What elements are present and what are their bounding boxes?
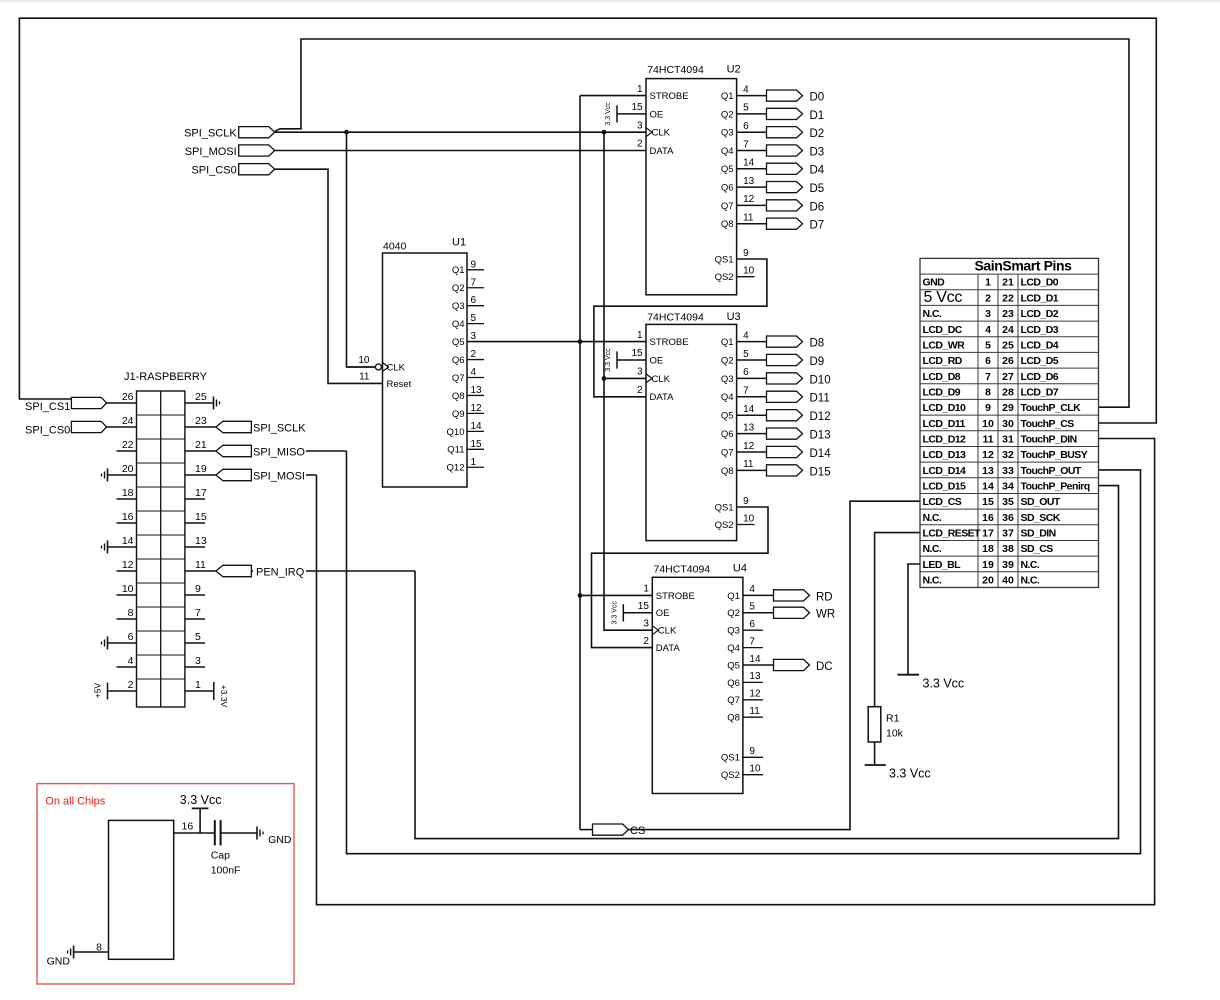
svg-text:14: 14 bbox=[471, 421, 483, 432]
svg-text:SPI_MOSI: SPI_MOSI bbox=[253, 471, 305, 483]
pin J1-3 stub bbox=[185, 666, 205, 668]
junction U3 CLK tap bbox=[602, 376, 607, 381]
pin U1 CLK bubble bbox=[375, 364, 381, 370]
svg-text:LCD_WR: LCD_WR bbox=[923, 339, 966, 351]
svg-text:Q4: Q4 bbox=[452, 319, 465, 330]
net flag D5 bbox=[767, 182, 803, 193]
svg-text:7: 7 bbox=[743, 139, 749, 150]
net flag SPI_SCLK (J1-23) bbox=[216, 421, 252, 432]
svg-text:74HCT4094: 74HCT4094 bbox=[647, 64, 704, 76]
annotation box On all Chips bbox=[37, 784, 294, 984]
pin U4 CLK wedge bbox=[652, 626, 658, 635]
svg-text:SPI_SCLK: SPI_SCLK bbox=[253, 423, 306, 435]
svg-text:Q3: Q3 bbox=[727, 626, 740, 637]
svg-text:22: 22 bbox=[122, 439, 134, 451]
svg-text:STROBE: STROBE bbox=[650, 91, 689, 102]
svg-text:2: 2 bbox=[471, 349, 477, 360]
wire U1 Q5 to U3 STROBE bbox=[467, 341, 646, 343]
connector J1 row divider 9 bbox=[137, 606, 185, 608]
svg-text:18: 18 bbox=[982, 543, 994, 555]
pin U1 Q4 stub bbox=[467, 323, 484, 325]
wire SCLK drop to U3/U4 CLK bbox=[604, 132, 652, 630]
net flag D0 bbox=[767, 90, 803, 101]
pin U1 Q10 stub bbox=[467, 430, 484, 432]
svg-text:7: 7 bbox=[195, 607, 201, 619]
svg-text:Q6: Q6 bbox=[452, 355, 465, 366]
svg-text:Q9: Q9 bbox=[452, 409, 465, 420]
svg-text:LCD_RESET: LCD_RESET bbox=[923, 527, 982, 539]
wire SPI_CS0 to U1 Reset bbox=[274, 169, 382, 383]
svg-text:QS2: QS2 bbox=[721, 770, 740, 781]
svg-text:TouchP_CLK: TouchP_CLK bbox=[1021, 402, 1082, 414]
net flag D8 bbox=[767, 336, 803, 347]
svg-text:QS1: QS1 bbox=[715, 502, 734, 513]
pin J1-9 stub bbox=[185, 594, 205, 596]
svg-text:11: 11 bbox=[359, 371, 370, 382]
svg-text:CLK: CLK bbox=[658, 626, 677, 637]
wire R1 to 3.3 Vcc bar bbox=[874, 742, 876, 765]
svg-text:2: 2 bbox=[985, 292, 991, 304]
svg-text:N.C.: N.C. bbox=[923, 543, 942, 555]
svg-text:9: 9 bbox=[743, 496, 749, 507]
junction SCLK/U1-CLK drop bbox=[344, 130, 349, 135]
connector J1 center line bbox=[160, 391, 162, 707]
wire SPI_SCLK/TouchP_CLK net outer loop bbox=[275, 39, 1129, 407]
svg-text:2: 2 bbox=[128, 679, 134, 691]
svg-text:5 Vcc: 5 Vcc bbox=[924, 289, 963, 306]
svg-text:26: 26 bbox=[1002, 355, 1014, 367]
ground at J1-25 bbox=[213, 397, 215, 410]
svg-text:27: 27 bbox=[1002, 371, 1014, 383]
connector J1 row divider 11 bbox=[137, 654, 185, 656]
svg-text:32: 32 bbox=[1002, 449, 1014, 461]
shift register U2 74HCT4094 body bbox=[646, 79, 737, 295]
pin U4 Q3 stub bbox=[743, 629, 763, 631]
svg-text:Q1: Q1 bbox=[721, 91, 734, 102]
svg-text:Q7: Q7 bbox=[727, 695, 740, 706]
power 3.3 Vcc bar at U4 OE bbox=[622, 604, 624, 621]
label SPI_MOSI (J1-19) bbox=[252, 469, 306, 481]
svg-text:12: 12 bbox=[471, 403, 483, 414]
wire STROBE to U4 bbox=[580, 594, 652, 596]
svg-text:7: 7 bbox=[985, 371, 991, 383]
svg-text:23: 23 bbox=[1002, 308, 1014, 320]
net flag SPI_MOSI (J1-19) bbox=[216, 469, 252, 480]
net flag SPI_CS0 (J1-24) bbox=[71, 421, 106, 432]
pin U1 Q8 stub bbox=[467, 394, 484, 396]
pin J1-7 stub bbox=[185, 618, 205, 620]
svg-text:26: 26 bbox=[122, 391, 134, 403]
svg-text:LCD_D6: LCD_D6 bbox=[1021, 371, 1059, 383]
svg-text:20: 20 bbox=[982, 574, 994, 586]
svg-text:D1: D1 bbox=[810, 110, 825, 122]
svg-text:D5: D5 bbox=[810, 183, 825, 195]
svg-text:21: 21 bbox=[195, 439, 207, 451]
svg-text:Q3: Q3 bbox=[452, 301, 465, 312]
wire U3 Q4 to flag bbox=[737, 396, 767, 398]
svg-text:GND: GND bbox=[47, 955, 71, 967]
svg-text:LCD_D3: LCD_D3 bbox=[1021, 324, 1059, 336]
svg-text:N.C.: N.C. bbox=[923, 574, 942, 586]
svg-text:13: 13 bbox=[743, 176, 755, 187]
svg-text:24: 24 bbox=[122, 415, 134, 427]
net flag D2 bbox=[767, 127, 803, 138]
svg-text:10: 10 bbox=[743, 513, 755, 524]
svg-text:7: 7 bbox=[743, 386, 749, 397]
svg-text:D14: D14 bbox=[810, 448, 832, 460]
pin J1-5 stub bbox=[185, 642, 205, 644]
svg-text:11: 11 bbox=[743, 459, 754, 470]
wire SPI_MISO net loop bbox=[347, 451, 1141, 854]
pin J1-13 stub bbox=[185, 546, 205, 548]
svg-text:4: 4 bbox=[128, 655, 134, 667]
wire J1-26 from flag bbox=[107, 402, 137, 404]
svg-text:9: 9 bbox=[195, 583, 201, 595]
net flag D15 bbox=[767, 465, 803, 476]
svg-text:6: 6 bbox=[471, 295, 477, 306]
svg-text:Q5: Q5 bbox=[452, 337, 465, 348]
svg-text:N.C.: N.C. bbox=[923, 308, 942, 320]
svg-text:GND: GND bbox=[268, 834, 292, 846]
svg-text:13: 13 bbox=[195, 535, 207, 547]
svg-text:D13: D13 bbox=[810, 430, 831, 442]
wire LCD_RESET to R1 bbox=[875, 533, 920, 707]
svg-text:14: 14 bbox=[749, 654, 761, 665]
wire pin 8 to GND bbox=[74, 951, 109, 953]
wire U3 Q7 to flag bbox=[737, 451, 767, 453]
svg-text:LCD_D7: LCD_D7 bbox=[1021, 386, 1059, 398]
svg-text:9: 9 bbox=[471, 259, 477, 270]
wire cap to GND bbox=[221, 832, 257, 834]
net flag D6 bbox=[767, 200, 803, 211]
svg-text:OE: OE bbox=[656, 608, 670, 619]
svg-text:6: 6 bbox=[128, 631, 134, 643]
svg-text:25: 25 bbox=[1002, 339, 1014, 351]
wire U4 Q5 to flag bbox=[743, 664, 774, 666]
svg-text:1: 1 bbox=[637, 84, 643, 95]
connector J1 row divider 12 bbox=[137, 678, 185, 680]
ground at J1-14 bbox=[107, 541, 109, 554]
junction STROBE/U4 bbox=[578, 593, 583, 598]
wire PEN_IRQ run bbox=[252, 570, 416, 572]
svg-text:6: 6 bbox=[743, 121, 749, 132]
wire U3 Q2 to flag bbox=[737, 359, 767, 361]
svg-text:100nF: 100nF bbox=[211, 865, 241, 877]
svg-text:1: 1 bbox=[471, 457, 477, 468]
svg-text:STROBE: STROBE bbox=[656, 591, 695, 602]
svg-text:9: 9 bbox=[749, 746, 755, 757]
wire STROBE to U2 bbox=[580, 95, 646, 97]
svg-text:D6: D6 bbox=[810, 201, 825, 213]
pin U1 Q12 stub bbox=[467, 466, 484, 468]
svg-text:6: 6 bbox=[985, 355, 991, 367]
svg-text:6: 6 bbox=[743, 367, 749, 378]
svg-text:SainSmart Pins: SainSmart Pins bbox=[974, 257, 1072, 273]
svg-text:QS1: QS1 bbox=[715, 254, 734, 265]
svg-text:12: 12 bbox=[749, 689, 761, 700]
svg-text:2: 2 bbox=[637, 385, 643, 396]
svg-text:R1: R1 bbox=[886, 713, 900, 725]
svg-text:D3: D3 bbox=[810, 146, 825, 158]
svg-text:3: 3 bbox=[643, 618, 649, 629]
label SPI_MISO (J1-21) bbox=[252, 445, 306, 457]
counter U1 4040 body bbox=[383, 253, 468, 487]
svg-text:15: 15 bbox=[195, 511, 207, 523]
wire U2 Q6 to flag bbox=[737, 186, 767, 188]
svg-text:CLK: CLK bbox=[652, 128, 671, 139]
svg-text:3.3 Vcc: 3.3 Vcc bbox=[605, 348, 612, 372]
svg-text:4: 4 bbox=[743, 84, 749, 95]
svg-text:LED_BL: LED_BL bbox=[923, 559, 962, 571]
power 3.3 Vcc bar below R1 bbox=[865, 764, 886, 766]
ground after cap bbox=[256, 827, 258, 840]
svg-text:14: 14 bbox=[122, 535, 134, 547]
net flag D9 bbox=[767, 354, 803, 365]
svg-text:5: 5 bbox=[195, 631, 201, 643]
wire SPI_SCLK horizontal run to U2 CLK bbox=[274, 131, 646, 133]
svg-text:5: 5 bbox=[749, 602, 755, 613]
svg-text:6: 6 bbox=[749, 619, 755, 630]
svg-text:Cap: Cap bbox=[211, 849, 230, 861]
svg-text:Q6: Q6 bbox=[721, 429, 734, 440]
svg-text:10: 10 bbox=[122, 583, 134, 595]
wire J1-11 to flag bbox=[185, 570, 216, 572]
svg-text:D15: D15 bbox=[810, 466, 831, 478]
pin U4 Q4 stub bbox=[743, 647, 763, 649]
connector J1 row divider 5 bbox=[137, 510, 185, 512]
svg-text:29: 29 bbox=[1002, 402, 1014, 414]
svg-text:33: 33 bbox=[1002, 465, 1014, 477]
page top edge line bbox=[0, 0, 1220, 2]
wire J1-14 to ground bbox=[108, 546, 137, 548]
net flag D14 bbox=[767, 446, 803, 457]
connector J1 row divider 6 bbox=[137, 534, 185, 536]
svg-text:SPI_SCLK: SPI_SCLK bbox=[184, 128, 237, 140]
wire SCLK drop to U1 CLK bbox=[347, 132, 376, 367]
pin U1 Q3 stub bbox=[467, 305, 484, 307]
svg-text:DATA: DATA bbox=[656, 643, 681, 654]
svg-text:Q2: Q2 bbox=[721, 109, 734, 120]
svg-text:LCD_D13: LCD_D13 bbox=[923, 449, 967, 461]
svg-text:12: 12 bbox=[743, 194, 755, 205]
svg-text:1: 1 bbox=[637, 330, 643, 341]
svg-text:3: 3 bbox=[471, 331, 477, 342]
svg-text:STROBE: STROBE bbox=[650, 337, 689, 348]
svg-text:LCD_D4: LCD_D4 bbox=[1021, 339, 1059, 351]
pin U1 Q6 stub bbox=[467, 359, 484, 361]
svg-text:WR: WR bbox=[816, 609, 835, 621]
pin U4 Q7 stub bbox=[743, 699, 763, 701]
pin U1 CLK wedge bbox=[383, 363, 389, 372]
connector J1 row divider 4 bbox=[137, 486, 185, 488]
wire J1-24 from flag bbox=[107, 426, 137, 428]
svg-text:14: 14 bbox=[982, 480, 994, 492]
svg-text:2: 2 bbox=[643, 636, 649, 647]
pin J1-15 stub bbox=[185, 522, 205, 524]
svg-text:DATA: DATA bbox=[650, 392, 675, 403]
svg-text:17: 17 bbox=[982, 527, 994, 539]
svg-text:OE: OE bbox=[650, 109, 664, 120]
svg-text:14: 14 bbox=[743, 158, 755, 169]
svg-text:U2: U2 bbox=[727, 63, 741, 75]
connector J1 row divider 3 bbox=[137, 462, 185, 464]
svg-text:9: 9 bbox=[985, 402, 991, 414]
svg-text:23: 23 bbox=[195, 415, 207, 427]
svg-text:12: 12 bbox=[743, 441, 755, 452]
svg-text:Q12: Q12 bbox=[447, 463, 465, 474]
connector J1 row divider 1 bbox=[137, 414, 185, 416]
svg-text:Q6: Q6 bbox=[727, 678, 740, 689]
svg-text:D10: D10 bbox=[810, 374, 831, 386]
svg-text:SD_SCK: SD_SCK bbox=[1021, 512, 1061, 524]
wire J1-2 to +5V bbox=[108, 690, 137, 692]
svg-text:N.C.: N.C. bbox=[923, 512, 942, 524]
svg-text:D0: D0 bbox=[810, 92, 825, 104]
wire U3 Q8 to flag bbox=[737, 469, 767, 471]
svg-text:36: 36 bbox=[1002, 512, 1014, 524]
svg-text:LCD_D0: LCD_D0 bbox=[1021, 277, 1059, 289]
svg-text:12: 12 bbox=[982, 449, 994, 461]
wire SPI_MOSI net loop bbox=[317, 439, 1155, 905]
svg-text:7: 7 bbox=[749, 636, 755, 647]
svg-text:LCD_D2: LCD_D2 bbox=[1021, 308, 1059, 320]
svg-text:LCD_D8: LCD_D8 bbox=[923, 371, 961, 383]
ground at J1-6 bbox=[107, 637, 109, 650]
wire U2 Q8 to flag bbox=[737, 223, 767, 225]
svg-text:3: 3 bbox=[985, 308, 991, 320]
svg-text:N.C.: N.C. bbox=[1021, 559, 1040, 571]
wire J1-1 to +3.3V bbox=[185, 690, 214, 692]
label PEN_IRQ (J1-11) bbox=[253, 565, 306, 577]
wire U4 Q2 to flag bbox=[743, 612, 774, 614]
svg-text:12: 12 bbox=[122, 559, 134, 571]
svg-text:Q3: Q3 bbox=[721, 128, 734, 139]
svg-text:34: 34 bbox=[1002, 480, 1014, 492]
svg-text:16: 16 bbox=[182, 821, 194, 833]
wire U2 OE to 3.3 Vcc bbox=[617, 113, 646, 115]
svg-text:TouchP_CS: TouchP_CS bbox=[1021, 418, 1075, 430]
svg-text:QS2: QS2 bbox=[715, 520, 734, 531]
svg-text:25: 25 bbox=[195, 391, 207, 403]
wire U2 QS1 to U3 DATA bbox=[594, 259, 767, 397]
svg-text:Q2: Q2 bbox=[727, 608, 740, 619]
net flag SPI_SCLK (top) bbox=[239, 127, 275, 138]
svg-text:CLK: CLK bbox=[652, 374, 671, 385]
pin J1-10 stub bbox=[117, 594, 137, 596]
svg-text:5: 5 bbox=[743, 349, 749, 360]
wire U4 OE to 3.3 Vcc bbox=[623, 612, 652, 614]
wire U3 Q1 to flag bbox=[737, 341, 767, 343]
pin U1 Q9 stub bbox=[467, 412, 484, 414]
wire U2 Q3 to flag bbox=[737, 131, 767, 133]
pin U3 QS2 stub bbox=[737, 524, 755, 526]
svg-text:1: 1 bbox=[985, 277, 991, 289]
svg-text:Q7: Q7 bbox=[452, 373, 465, 384]
svg-text:+3.3V: +3.3V bbox=[219, 685, 229, 708]
svg-text:4: 4 bbox=[743, 330, 749, 341]
wire J1-6 to ground bbox=[108, 642, 137, 644]
net flag D13 bbox=[767, 428, 803, 439]
connector J1 row divider 7 bbox=[137, 558, 185, 560]
svg-text:D12: D12 bbox=[810, 411, 831, 423]
wire J1-19 to flag bbox=[185, 474, 216, 476]
svg-text:Q1: Q1 bbox=[721, 337, 734, 348]
svg-text:24: 24 bbox=[1002, 324, 1014, 336]
wire J1-20 to ground bbox=[108, 474, 137, 476]
svg-text:CS: CS bbox=[630, 825, 645, 837]
svg-text:Q10: Q10 bbox=[447, 427, 465, 438]
wire pin16 to cap C bbox=[174, 832, 215, 834]
junction STROBE/U3 bbox=[578, 339, 583, 344]
net flag CS bbox=[593, 824, 629, 835]
svg-text:10: 10 bbox=[749, 764, 761, 775]
pin U1 CLK wire from SCLK bbox=[347, 366, 375, 368]
svg-text:11: 11 bbox=[743, 213, 754, 224]
pin J1-4 stub bbox=[117, 666, 137, 668]
svg-text:D8: D8 bbox=[810, 338, 825, 350]
net flag D1 bbox=[767, 108, 803, 119]
svg-text:3.3 Vcc: 3.3 Vcc bbox=[889, 767, 931, 781]
net flag RD bbox=[774, 590, 810, 601]
svg-text:39: 39 bbox=[1002, 559, 1014, 571]
svg-text:Q2: Q2 bbox=[721, 355, 734, 366]
svg-text:PEN_IRQ: PEN_IRQ bbox=[256, 567, 305, 579]
net flag SPI_MOSI (top) bbox=[239, 145, 275, 156]
svg-text:SPI_CS0: SPI_CS0 bbox=[191, 165, 236, 177]
svg-text:5: 5 bbox=[985, 339, 991, 351]
svg-text:7: 7 bbox=[471, 277, 477, 288]
wire U2 Q2 to flag bbox=[737, 113, 767, 115]
wire U2 Q7 to flag bbox=[737, 204, 767, 206]
pin U1 Q1 stub bbox=[467, 269, 484, 271]
svg-text:11: 11 bbox=[749, 706, 760, 717]
svg-text:15: 15 bbox=[638, 601, 650, 612]
wire U3 OE to 3.3 Vcc bbox=[617, 359, 646, 361]
svg-text:J1-RASPBERRY: J1-RASPBERRY bbox=[124, 371, 208, 383]
svg-text:LCD_D12: LCD_D12 bbox=[923, 433, 967, 445]
svg-text:SPI_CS0: SPI_CS0 bbox=[25, 424, 70, 436]
svg-text:D9: D9 bbox=[810, 356, 825, 368]
svg-text:Q6: Q6 bbox=[721, 183, 734, 194]
svg-text:10: 10 bbox=[982, 418, 994, 430]
svg-text:3.3 Vcc: 3.3 Vcc bbox=[923, 677, 965, 691]
junction SCLK/U3-U4 CLK drop bbox=[602, 130, 607, 135]
svg-text:37: 37 bbox=[1002, 527, 1014, 539]
pin U3 CLK wedge bbox=[646, 374, 652, 383]
wire SPI_MOSI run bbox=[252, 474, 317, 476]
svg-text:TouchP_BUSY: TouchP_BUSY bbox=[1021, 449, 1088, 461]
svg-text:LCD_D11: LCD_D11 bbox=[923, 418, 966, 430]
svg-text:30: 30 bbox=[1002, 418, 1014, 430]
pin U2 CLK wedge bbox=[646, 128, 652, 137]
svg-text:4: 4 bbox=[471, 367, 477, 378]
svg-text:1: 1 bbox=[643, 584, 649, 595]
svg-text:13: 13 bbox=[982, 465, 994, 477]
svg-text:Q4: Q4 bbox=[721, 146, 734, 157]
wire U2 Q5 to flag bbox=[737, 168, 767, 170]
svg-text:Q8: Q8 bbox=[452, 391, 465, 402]
svg-text:LCD_D5: LCD_D5 bbox=[1021, 355, 1059, 367]
svg-text:LCD_D1: LCD_D1 bbox=[1021, 292, 1059, 304]
svg-text:17: 17 bbox=[195, 487, 207, 499]
svg-text:22: 22 bbox=[1002, 292, 1014, 304]
wire STROBE to CS flag bbox=[580, 829, 593, 831]
svg-text:QS1: QS1 bbox=[721, 753, 740, 764]
svg-text:Q7: Q7 bbox=[721, 447, 734, 458]
svg-text:10k: 10k bbox=[886, 728, 904, 740]
svg-text:SPI_CS1: SPI_CS1 bbox=[25, 401, 70, 413]
wire U3 QS1 to U4 DATA bbox=[592, 507, 769, 648]
